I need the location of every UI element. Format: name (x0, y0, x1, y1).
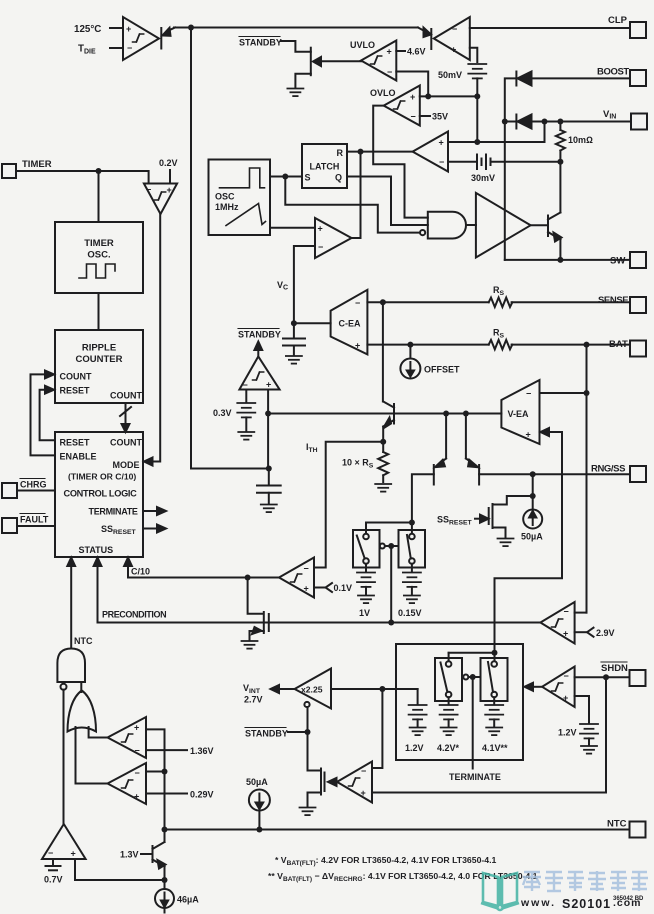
svg-text:BAT: BAT (609, 339, 628, 350)
node osc pulse (282, 174, 288, 180)
wire gate output (466, 224, 476, 226)
wire ssreset output arrow (143, 525, 166, 533)
wire V-EA minus (540, 392, 587, 394)
pin SW (630, 252, 646, 268)
node vref node (379, 686, 385, 692)
wire U15 minus to ntc node (146, 771, 165, 773)
svg-text:+: + (304, 584, 309, 594)
svg-text:SHDN: SHDN (601, 663, 628, 674)
wire V-EA plus input path (495, 428, 563, 653)
label RS sense (493, 285, 505, 297)
svg-text:RIPPLE: RIPPLE (82, 343, 116, 354)
comparator U2 50mV CLP (434, 17, 470, 60)
svg-text:NTC: NTC (607, 819, 627, 830)
svg-text:−: − (127, 43, 132, 53)
node Q4 emitter (443, 411, 449, 417)
svg-text:BOOST: BOOST (597, 67, 629, 78)
svg-text:0.1V: 0.1V (334, 583, 353, 593)
block TIMER OSC (55, 222, 143, 293)
transistor Q2 power NPN (548, 162, 562, 260)
node standby gate (305, 729, 311, 735)
svg-text:www.: www. (520, 897, 556, 909)
svg-text:0.15V: 0.15V (398, 608, 422, 618)
comparator U8 0.2V mode (144, 184, 177, 215)
wire 1V battery ground stub (365, 587, 367, 595)
svg-text:(TIMER OR C/10): (TIMER OR C/10) (68, 472, 136, 482)
wire timer osc to ripple counter (98, 293, 100, 330)
label FAULT overline (20, 514, 49, 525)
wire U12 output arrow (328, 778, 337, 786)
wire CHRG (17, 490, 55, 492)
node VIN at 10mohm (557, 119, 563, 125)
resistor 10xRS (378, 442, 388, 482)
diode D2 boost (516, 72, 531, 86)
wire precondition status arrow (94, 558, 102, 623)
svg-text:STANDBY: STANDBY (245, 729, 288, 739)
svg-text:CONTROL LOGIC: CONTROL LOGIC (64, 489, 138, 499)
comparator U10 C10 0.1V (279, 558, 314, 598)
svg-text:1V: 1V (359, 608, 370, 618)
battery 4.1V (485, 697, 503, 735)
label TIMER OSC. (84, 238, 114, 261)
wire SHDN line (575, 676, 630, 678)
svg-text:SENSE: SENSE (598, 295, 628, 306)
wire NTC line (165, 829, 630, 831)
transistor Q1 standby pulldown (281, 41, 361, 88)
svg-text:1.36V: 1.36V (190, 746, 214, 756)
amplifier driver (476, 193, 531, 258)
comparator U4 OVLO (384, 86, 420, 126)
amplifier V-EA (501, 380, 539, 444)
transistor Q3 ith buffer (383, 402, 394, 429)
svg-text:COUNTER: COUNTER (76, 354, 123, 365)
wire 2.9V ref stub (575, 628, 594, 637)
U9 hysteresis glyph (253, 372, 264, 380)
wire rng base left segment (412, 474, 434, 522)
block CONTROL LOGIC (55, 432, 143, 557)
svg-text:30mV: 30mV (471, 173, 495, 183)
node 46uA (162, 877, 168, 883)
label RIPPLE COUNTER (76, 343, 123, 366)
comparator U12 shdn gate (337, 762, 372, 803)
svg-text:4.6V: 4.6V (407, 47, 426, 57)
wire 0.15V ground stub (411, 587, 413, 595)
svg-text:x2.25: x2.25 (301, 685, 323, 695)
wire standby label stub (288, 731, 308, 733)
svg-text:RNG/SS: RNG/SS (591, 464, 625, 475)
wire 2.9V minus to BAT sense (575, 612, 587, 614)
ground under M3 (300, 808, 316, 816)
wire SENSE line (367, 301, 630, 303)
wire driver to Q2 base (531, 224, 548, 226)
wire OVLO plus line (420, 95, 478, 97)
ground under standby cap (261, 505, 277, 513)
label VINT 2.7V (243, 683, 263, 705)
wire C10 line (128, 577, 279, 579)
wire or left input (76, 727, 108, 784)
wire U14 plus to ntc node (146, 729, 165, 842)
switch S1 1V (353, 530, 380, 568)
svg-text:+: + (134, 792, 139, 802)
svg-text:2.9V: 2.9V (596, 628, 615, 638)
transistor Q5 pnp right (466, 414, 479, 485)
svg-text:R: R (337, 148, 344, 158)
ground under 1V (358, 596, 374, 604)
wire OSC pulse to latch S (270, 176, 302, 178)
resistor 10mohm (556, 122, 565, 162)
gate G1 AND (420, 212, 466, 239)
watermark book icon (481, 873, 519, 910)
node R junction (358, 149, 364, 155)
svg-text:NTC: NTC (74, 636, 93, 646)
svg-text:V-EA: V-EA (508, 409, 530, 419)
wire ITH to C10 comparator (314, 442, 383, 568)
wire 1V battery stub (365, 564, 367, 572)
node rng rail (530, 471, 536, 477)
current source OFFSET (400, 345, 420, 379)
svg-text:OSC.: OSC. (87, 250, 110, 261)
wire boost rail (505, 78, 517, 260)
wire count bus to control logic (120, 403, 131, 432)
U10 hysteresis glyph (291, 574, 302, 582)
wire VINT arrow (271, 685, 295, 693)
resistor RS bat (489, 340, 513, 349)
svg-text:TERMINATE: TERMINATE (89, 507, 138, 517)
svg-text:C/10: C/10 (131, 567, 150, 577)
glyph osc ramp wave (226, 204, 266, 226)
wire 1.2V shdn ground stub (588, 738, 590, 745)
wire C10 status arrow (124, 558, 132, 578)
svg-text:+: + (167, 185, 172, 195)
wire Q to gate (347, 177, 428, 226)
diode D3 vin (505, 115, 532, 129)
wire UVLO minus to VIN sense node (396, 72, 428, 97)
wire switch midpoint (380, 544, 399, 549)
node Q5 emitter (463, 411, 469, 417)
footnote 1 (275, 855, 497, 867)
comparator U16 0.7V (42, 824, 86, 859)
wire top standby net (174, 27, 418, 29)
label STANDBY top (239, 37, 282, 48)
wire or to and input (80, 682, 82, 692)
node terminate feed (492, 650, 498, 656)
ground under 0.15V (404, 596, 420, 604)
ground under VC cap (286, 356, 302, 364)
svg-text:−: − (48, 848, 53, 858)
svg-text:−: − (304, 564, 309, 574)
svg-text:MODE: MODE (113, 460, 140, 470)
wire FAULT (17, 525, 55, 527)
wire ITH node line (268, 413, 501, 415)
svg-text:COUNT: COUNT (60, 372, 92, 382)
wire VIN lead (532, 121, 632, 123)
label STANDBY bottom (245, 728, 288, 739)
svg-text:−: − (355, 298, 360, 308)
svg-text:50µA: 50µA (521, 532, 543, 542)
svg-text:+: + (563, 629, 568, 639)
comparator U11 2.9V precondition (540, 602, 574, 644)
wire ssreset gate arrow (475, 515, 489, 523)
U13 hysteresis glyph (552, 683, 563, 691)
comparator U1 thermal 125C (123, 17, 159, 60)
ground under M2 (242, 641, 258, 649)
node ith resistor top (380, 439, 386, 445)
wire 0.7V comp to and bubble (63, 690, 65, 824)
wire 50mV battery stub (470, 48, 478, 62)
pin BAT (630, 341, 646, 357)
svg-text:+: + (387, 47, 392, 57)
ground under 0.3V (238, 432, 254, 440)
node at 30mV plus line (474, 139, 480, 145)
svg-text:+: + (526, 430, 531, 440)
wire OVLO output to gate (373, 106, 428, 218)
node V-EA minus (584, 390, 590, 396)
diode D4 thermal output (161, 28, 175, 49)
svg-text:+: + (318, 224, 323, 234)
svg-text:−: − (526, 389, 531, 399)
ground under M1 (498, 539, 514, 547)
comparator U7 PWM (315, 218, 352, 258)
svg-text:−: − (411, 112, 416, 122)
oscillator OSC box (209, 160, 271, 236)
transistor Q6 1.3V clamp (141, 842, 166, 869)
wire 1.36V stub (146, 749, 187, 751)
node boost rail at VIN (502, 119, 508, 125)
transistor M2 precondition gate (248, 578, 269, 641)
wire tall vertical standby net (191, 28, 269, 469)
transistor Q4 pnp left (434, 414, 446, 485)
U11 hysteresis glyph (552, 619, 563, 627)
ground under 10xRS (375, 484, 391, 492)
svg-text:+: + (439, 138, 444, 148)
wire c10 ref to precondition line (390, 546, 392, 623)
wire 4.6V stub (396, 50, 405, 52)
wire U13 ref stub (575, 696, 589, 723)
glyph timer square wave (79, 264, 115, 278)
pin SENSE (630, 297, 646, 313)
node BAT to V-EA sense (584, 342, 590, 348)
svg-text:1.2V: 1.2V (405, 743, 424, 753)
comparator U13 shdn 1.2V (542, 667, 575, 708)
label SSRESET with arrow (437, 515, 473, 527)
gate G3 NTC OR (68, 691, 97, 732)
svg-text:125°C: 125°C (74, 24, 101, 35)
wire terminate output arrow (143, 507, 166, 515)
transistor M3 standby nmos (308, 732, 325, 807)
svg-text:−: − (452, 24, 457, 34)
label SSRESET out (101, 524, 137, 536)
label RS bat (493, 328, 505, 340)
node SHDN (603, 674, 609, 680)
wire TIMER net (16, 171, 149, 184)
node 50uA ntc (256, 827, 262, 833)
current source 50uA rng (523, 510, 542, 529)
wire standby bubble stub (307, 707, 309, 732)
svg-text:1.3V: 1.3V (120, 850, 139, 860)
label VIN (603, 109, 616, 121)
node offset junction (407, 342, 413, 348)
svg-text:4.2V*: 4.2V* (437, 743, 460, 753)
wire switch feed line (366, 523, 412, 534)
wire PRECONDITION line (98, 622, 541, 624)
svg-text:+: + (361, 788, 366, 798)
node at OVLO plus line (474, 93, 480, 99)
label 10xRS (342, 458, 374, 470)
ground under 1.2V shdn (581, 746, 597, 754)
watermark url (520, 897, 642, 911)
svg-text:LATCH: LATCH (310, 162, 340, 172)
svg-text:0.2V: 0.2V (159, 158, 178, 168)
label ITH (306, 442, 318, 454)
wire 0.7V ref stub (46, 859, 61, 870)
comparator U5 30mV (413, 132, 448, 172)
wire 50uA feed (532, 474, 534, 510)
node VIN diode anode (542, 119, 548, 125)
wire 0.15V battery stub (411, 564, 413, 572)
svg-text:1MHz: 1MHz (215, 202, 239, 212)
svg-text:S: S (305, 173, 311, 183)
pin NTC (630, 822, 646, 838)
wire 30mV right lead (491, 161, 561, 163)
node ntc divider (162, 769, 168, 775)
wire PWM comparator output to R (352, 152, 361, 238)
svg-text:CLP: CLP (608, 15, 628, 26)
svg-text:−: − (318, 242, 323, 252)
wire 35V stub (420, 115, 430, 117)
wire 0.3V minus stub (245, 390, 247, 403)
wire U13 output arrow to box (525, 683, 543, 691)
wire VC net (294, 246, 315, 338)
wire VC to C-EA output (294, 322, 331, 324)
pin SHDN (630, 670, 646, 686)
node nmos drain tap (530, 493, 536, 499)
svg-text:TERMINATE: TERMINATE (449, 772, 501, 782)
battery 30mV (477, 155, 491, 170)
svg-text:−: − (135, 768, 140, 778)
transistor M1 ssreset nmos (489, 504, 506, 537)
node ntc line left (162, 827, 168, 833)
current source 50uA ntc (249, 790, 270, 830)
svg-text:0.3V: 0.3V (213, 408, 232, 418)
label VC (277, 280, 288, 292)
wire standby out arrow (254, 342, 262, 357)
wire TIMER to osc block (98, 171, 100, 222)
comparator U14 1.36V (108, 717, 147, 758)
svg-text:STANDBY: STANDBY (239, 38, 282, 48)
wire VBAT sense vertical (586, 345, 588, 613)
svg-text:0.7V: 0.7V (44, 875, 63, 885)
U8 hysteresis glyph (155, 192, 166, 200)
block terminate switches box (396, 644, 523, 760)
svg-text:0.29V: 0.29V (190, 790, 214, 800)
svg-text:STANDBY: STANDBY (238, 330, 281, 340)
wire SW line (505, 259, 630, 261)
svg-text:PRECONDITION: PRECONDITION (102, 610, 166, 620)
svg-text:+: + (126, 24, 131, 34)
capacitor VC comp (283, 339, 305, 356)
amplifier C-EA (331, 290, 368, 355)
node standby cap (266, 466, 272, 472)
svg-text:1.2V: 1.2V (558, 728, 577, 738)
wire 0.29V stub (146, 793, 187, 795)
U4 hysteresis glyph (394, 101, 405, 109)
wire feedback enable loop (31, 371, 56, 456)
battery 1.2V ref (409, 689, 427, 735)
U12 hysteresis glyph (349, 778, 360, 786)
node c10 output junction (245, 575, 251, 581)
U14 hysteresis glyph (122, 734, 133, 742)
battery 0.3V (237, 403, 255, 417)
svg-text:46µA: 46µA (177, 895, 199, 905)
label TDIE (78, 44, 123, 56)
svg-text:+: + (266, 380, 271, 390)
svg-text:OVLO: OVLO (370, 88, 396, 98)
svg-text:365042 BD: 365042 BD (613, 896, 644, 902)
battery 1V (357, 573, 375, 587)
svg-text:50µA: 50µA (246, 777, 268, 787)
pin FAULT (2, 518, 17, 533)
latch U6 box (302, 144, 347, 188)
svg-text:−: − (387, 67, 392, 77)
switch S2 0.15V (399, 530, 426, 568)
wire switch S3-S4 midpoint (462, 675, 481, 680)
svg-text:+: + (410, 92, 415, 102)
label SHDN overline (601, 662, 628, 674)
U15 hysteresis glyph (122, 780, 133, 788)
svg-text:RESET: RESET (60, 386, 91, 396)
block RIPPLE COUNTER (55, 330, 143, 403)
comparator U9 standby 0.3V (239, 356, 279, 389)
comparator U15 0.29V (108, 763, 147, 804)
wire Q6 emitter (164, 867, 166, 890)
svg-text:+: + (451, 45, 456, 55)
U1 hysteresis glyph (133, 34, 144, 42)
node switch mid (388, 543, 394, 549)
wire switch1 top stub (365, 523, 367, 534)
svg-text:Q: Q (335, 173, 342, 183)
svg-text:4.1V**: 4.1V** (482, 743, 508, 753)
pin BOOST (630, 70, 646, 86)
wire 30mV plus sense (448, 122, 545, 143)
gate G2 NTC AND (57, 649, 85, 690)
svg-text:UVLO: UVLO (350, 40, 375, 50)
label CHRG overline (20, 479, 47, 490)
wire R line (347, 151, 413, 153)
current source 46uA (155, 889, 174, 913)
capacitor standby (257, 469, 281, 504)
wire terminate output (472, 677, 474, 769)
svg-text:TIMER: TIMER (84, 238, 114, 249)
diode D1 at 50mV comparator output (418, 28, 431, 50)
svg-text:+: + (134, 723, 139, 733)
svg-text:10mΩ: 10mΩ (568, 135, 593, 145)
ground under Q1 (287, 89, 303, 97)
node standby-top junction (188, 25, 194, 31)
node ith line left (265, 411, 271, 417)
svg-text:+: + (563, 693, 568, 703)
label STANDBY mid (238, 329, 281, 340)
wire 0.3V battery to ground (245, 417, 247, 431)
wire mode select to control logic (144, 214, 160, 466)
wire osc ramp to PWM plus (270, 227, 315, 229)
node VC (291, 320, 297, 326)
battery 1.2V shdn (580, 724, 598, 738)
pin TIMER (2, 164, 16, 178)
svg-text:C-EA: C-EA (339, 319, 361, 329)
svg-text:−: − (564, 607, 569, 617)
node precondition junction (388, 620, 394, 626)
svg-text:CHRG: CHRG (20, 480, 47, 490)
